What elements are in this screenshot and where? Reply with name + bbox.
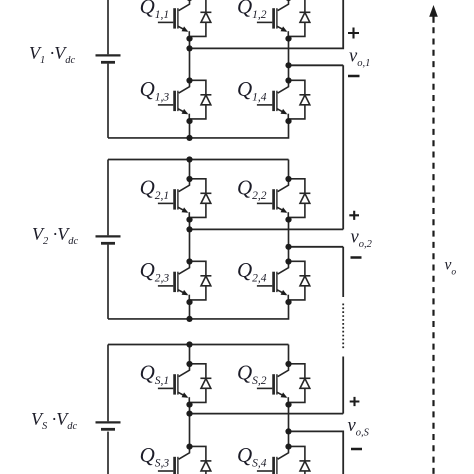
node: Q1,1 collector junction (186, 0, 192, 1)
node: Q2,1 collector junction (186, 176, 192, 182)
transistor QS,2 (257, 364, 289, 405)
node: QS,4 collector junction (285, 444, 291, 450)
wire: module 1 DC bus left (battery top lead) (107, 0, 109, 54)
node: module 1 bottom rail junction (186, 135, 192, 141)
transistor Q2,1 (158, 179, 190, 220)
wire: module 1 positive output to bracket (190, 0, 344, 48)
wire: module 2 right leg segments (288, 160, 290, 262)
wire: module S battery bottom lead (107, 432, 109, 474)
node: QS,1 collector junction (186, 361, 192, 367)
minus sign module 1 output (348, 75, 360, 78)
wire: dotted series continuation (342, 304, 344, 350)
node: module 2 negative output node (285, 244, 291, 250)
plus sign module 1 output (348, 28, 359, 39)
wire: module 2 battery bottom lead (107, 245, 109, 319)
minus sign module 2 output (351, 256, 362, 259)
transistor Q1,3 (158, 81, 190, 122)
minus sign module S output (351, 448, 362, 451)
node: Q1,2 emitter junction (285, 36, 291, 42)
diode DS,2 (289, 364, 311, 403)
wire: module S positive output (190, 413, 344, 415)
node: Q2,4 collector junction (285, 258, 291, 264)
plus sign module S output (350, 397, 360, 406)
node: module S positive output node (186, 411, 192, 417)
diode D1,4 (289, 80, 311, 119)
node: Q1,3 collector junction (186, 77, 192, 83)
node: Q2,1 emitter junction (186, 217, 192, 223)
plus sign module 2 output (349, 211, 359, 220)
dc source V2 battery (96, 236, 121, 243)
node: QS,2 emitter junction (285, 402, 291, 408)
node: Q1,3 emitter junction (186, 118, 192, 124)
junction dots (186, 0, 291, 450)
wire: module S negative output (289, 431, 344, 474)
diode D1,2 (289, 0, 311, 36)
output voltage dashed arrow vo (429, 5, 438, 474)
node: Q2,2 collector junction (285, 176, 291, 182)
diode D2,4 (289, 261, 311, 300)
polarity signs (348, 28, 362, 450)
node: Q2,3 emitter junction (186, 299, 192, 305)
wire: module S battery top lead (107, 345, 109, 422)
wire: module 2 top rail (108, 159, 289, 161)
wire: module 1 battery bottom lead (107, 64, 109, 138)
diode DS,1 (190, 364, 212, 403)
wire: module S right leg segments (288, 345, 290, 447)
node: module 1 positive output node (186, 45, 192, 51)
transistor Q1,2 (257, 0, 289, 39)
dc source V1 battery (96, 55, 121, 62)
node: QS,3 collector junction (186, 444, 192, 450)
node: module 1 negative output node (285, 62, 291, 68)
wire: module 2 bottom rail (108, 302, 289, 319)
transistor QS,3 (158, 447, 190, 474)
node: Q1,4 collector junction (285, 77, 291, 83)
diode DS,3 (190, 446, 212, 474)
node: module 2 positive output node (186, 226, 192, 232)
transistor QS,1 (158, 364, 190, 405)
wire: module 1 negative output (289, 64, 344, 66)
wire: module 2 left leg segments (189, 160, 191, 319)
node: Q2,4 emitter junction (285, 299, 291, 305)
wire: module 1 bottom rail (108, 121, 289, 138)
wire: module 1 left leg upper segments (189, 39, 191, 138)
node: module S top rail junction (186, 341, 192, 347)
diode D2,1 (190, 179, 212, 218)
wire: module 2 positive output (190, 228, 344, 230)
transistor Q2,4 (257, 262, 289, 303)
diode D1,1 (190, 0, 212, 36)
diode D2,2 (289, 179, 311, 218)
wire: module S left leg segments (189, 345, 191, 447)
transistor QS,4 (257, 447, 289, 474)
wire: series link into module S+ (342, 357, 344, 414)
node: Q1,1 emitter junction (186, 36, 192, 42)
diode D2,3 (190, 261, 212, 300)
wire: series link module2- downward (342, 247, 344, 297)
node: Q1,4 emitter junction (285, 118, 291, 124)
node: module S negative output node (285, 428, 291, 434)
wire: module 2 battery top lead (107, 160, 109, 236)
diode D1,3 (190, 80, 212, 119)
wire: module 2 negative output (289, 246, 344, 248)
node: Q1,2 collector junction (285, 0, 291, 1)
transistor Q1,1 (158, 0, 190, 39)
wire: module S top rail (108, 344, 289, 346)
node: module 2 bottom rail junction (186, 316, 192, 322)
transistor Q2,3 (158, 262, 190, 303)
node: module 2 top rail junction (186, 156, 192, 162)
dc source VS battery (96, 422, 121, 429)
wire: series link module1- to module2+ (342, 65, 344, 229)
diode DS,4 (289, 446, 311, 474)
node: Q2,2 emitter junction (285, 217, 291, 223)
wire: module 1 right leg segments (288, 39, 290, 81)
transistor Q1,4 (257, 81, 289, 122)
node: QS,2 collector junction (285, 361, 291, 367)
node: QS,1 emitter junction (186, 402, 192, 408)
transistor Q2,2 (257, 179, 289, 220)
node: Q2,3 collector junction (186, 258, 192, 264)
